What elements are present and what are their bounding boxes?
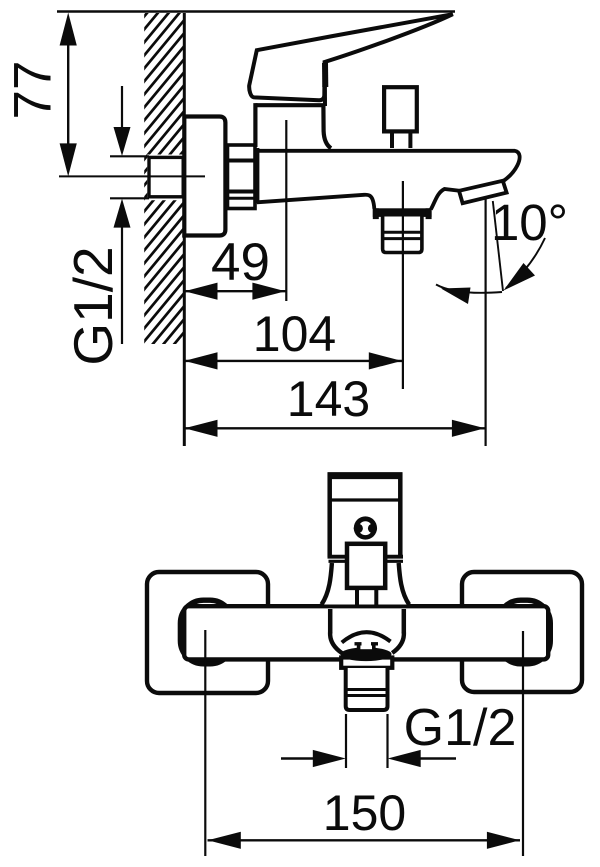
spout dome front: [342, 632, 391, 642]
cartridge cap side view: [256, 103, 325, 107]
svg-text:G1/2: G1/2: [404, 699, 517, 757]
escutcheon side view: [184, 117, 225, 236]
body underside right of flange: [431, 189, 460, 210]
valve centerline: [59, 175, 205, 177]
svg-text:104: 104: [253, 306, 336, 362]
fitting dimension lower arrow: [121, 226, 123, 344]
hot cold indicator: [354, 516, 377, 539]
fitting dimension upper tick: [110, 155, 149, 157]
body bottom edge: [257, 195, 374, 209]
knob foot: [355, 588, 359, 607]
spout flange: [373, 208, 432, 217]
left union nut front: [180, 600, 233, 664]
aerator side view: [459, 181, 507, 203]
cartridge cover front: [322, 563, 410, 605]
spout wings front: [330, 632, 342, 653]
union nut side view: [228, 145, 256, 209]
dimension 77 up arrow: [60, 13, 77, 46]
spout mouth ellipse: [341, 647, 392, 661]
svg-text:143: 143: [287, 371, 370, 427]
svg-text:77: 77: [4, 61, 63, 120]
outlet centerline: [402, 181, 404, 389]
fitting dimension lower tick: [110, 197, 149, 199]
diverter knob side view: [390, 130, 394, 148]
svg-text:G1/2: G1/2: [62, 246, 124, 365]
shower outlet front: [346, 668, 388, 710]
right union nut front: [498, 600, 551, 664]
top reference line: [57, 10, 455, 12]
right escutcheon front: [462, 572, 582, 692]
wall face line: [183, 13, 186, 446]
body bar front: [184, 606, 548, 659]
body left edge: [254, 148, 259, 204]
svg-text:10°: 10°: [491, 194, 568, 251]
150 extension lines: [204, 630, 206, 856]
dimension 150: [208, 839, 521, 841]
G1/2 extension lines front: [345, 714, 347, 768]
valve axis extension line: [285, 120, 287, 301]
left escutcheon front: [147, 572, 268, 693]
dimension 77 down arrow: [60, 143, 77, 176]
handle notch: [322, 63, 328, 87]
aerator tab front: [358, 642, 374, 649]
dimension 143: [184, 427, 486, 429]
dimension 77 vertical line: [67, 30, 69, 160]
dimension 49: [184, 290, 286, 292]
handle front outline: [330, 475, 401, 557]
svg-text:150: 150: [323, 785, 406, 841]
angle arc right with arrow: [506, 238, 545, 288]
wall fitting: [149, 157, 183, 196]
faucet body side view top edge and spout curve: [257, 151, 520, 182]
svg-text:49: 49: [211, 233, 270, 292]
spout band front: [341, 658, 392, 668]
spout column front: [328, 609, 333, 634]
shower outlet side view: [383, 217, 422, 253]
G1/2 dimension front: [281, 757, 316, 759]
fitting dimension upper arrow: [121, 86, 123, 131]
spout tip extension line: [485, 199, 487, 446]
dimension 104: [184, 360, 402, 362]
angle 10 degree tilted line: [493, 201, 503, 291]
angle arc left with arrow: [436, 285, 502, 293]
diverter knob front: [347, 544, 385, 588]
handle side view: [249, 14, 453, 100]
handle joint lines: [328, 555, 404, 559]
wall hatching: [128, 0, 200, 426]
